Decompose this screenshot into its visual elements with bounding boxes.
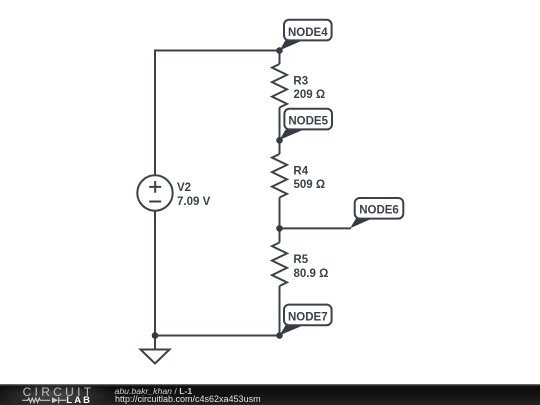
svg-text:NODE6: NODE6 — [359, 205, 399, 217]
svg-text:209 Ω: 209 Ω — [294, 89, 326, 101]
svg-text:7.09 V: 7.09 V — [177, 196, 211, 208]
svg-text:NODE7: NODE7 — [288, 311, 328, 323]
svg-text:R4: R4 — [293, 166, 308, 178]
svg-text:NODE5: NODE5 — [288, 116, 328, 128]
svg-text:V2: V2 — [177, 182, 191, 194]
svg-text:80.9 Ω: 80.9 Ω — [294, 268, 329, 280]
svg-text:R5: R5 — [293, 254, 308, 266]
svg-text:509 Ω: 509 Ω — [294, 179, 326, 191]
svg-text:NODE4: NODE4 — [288, 27, 328, 39]
svg-text:R3: R3 — [293, 76, 308, 88]
svg-text:LAB: LAB — [66, 395, 92, 405]
